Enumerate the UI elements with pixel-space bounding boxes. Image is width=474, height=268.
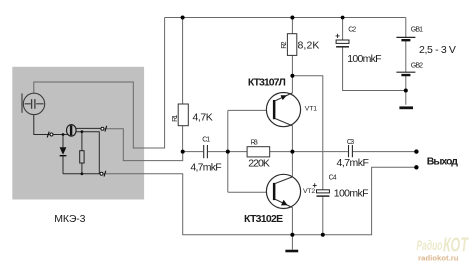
svg-text:Выход: Выход <box>427 155 458 167</box>
svg-text:4,7mkF: 4,7mkF <box>337 157 369 169</box>
svg-text:100mkF: 100mkF <box>334 188 369 200</box>
svg-text:4,7mkF: 4,7mkF <box>190 162 221 174</box>
svg-text:R3: R3 <box>251 139 258 146</box>
svg-text:КОТ: КОТ <box>443 235 469 257</box>
svg-text:VT1: VT1 <box>305 105 317 112</box>
svg-text:+: + <box>335 32 340 41</box>
svg-text:GB1: GB1 <box>411 26 423 33</box>
svg-text:100mkF: 100mkF <box>347 53 381 65</box>
svg-text:+: + <box>312 181 317 190</box>
svg-text:GB2: GB2 <box>411 63 423 70</box>
svg-text:КТ3102Е: КТ3102Е <box>244 213 283 225</box>
svg-text:C2: C2 <box>348 27 356 34</box>
svg-text:R1: R1 <box>172 115 179 122</box>
svg-text:4,7K: 4,7K <box>193 111 213 123</box>
svg-text:Радио: Радио <box>417 238 443 253</box>
svg-text:МКЭ-3: МКЭ-3 <box>54 213 85 225</box>
svg-text:2,5 - 3 V: 2,5 - 3 V <box>419 44 456 56</box>
svg-text:R2: R2 <box>281 41 288 48</box>
svg-text:КТ3107Л: КТ3107Л <box>248 77 286 89</box>
svg-text:C1: C1 <box>202 136 210 143</box>
svg-text:C4: C4 <box>329 175 337 182</box>
svg-text:220K: 220K <box>248 158 270 170</box>
svg-text:radiokot.ru: radiokot.ru <box>418 256 459 263</box>
svg-text:C3: C3 <box>347 139 354 146</box>
svg-text:8,2K: 8,2K <box>298 40 320 52</box>
